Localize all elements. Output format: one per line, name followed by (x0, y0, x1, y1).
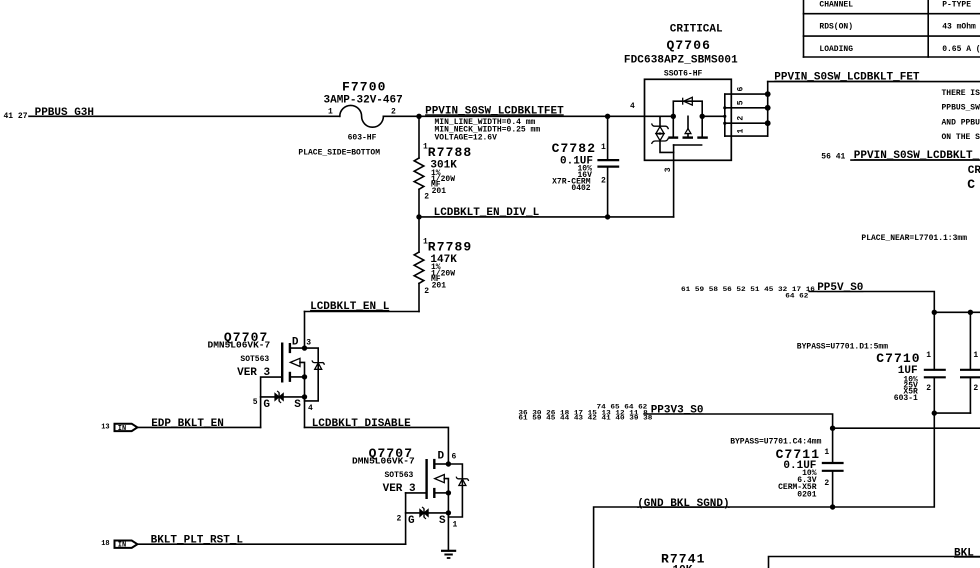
svg-text:603-HF: 603-HF (348, 133, 377, 142)
svg-text:1: 1 (423, 238, 428, 247)
svg-text:P-TYPE: P-TYPE (942, 0, 971, 9)
svg-text:PPBUS_SW: PPBUS_SW (942, 104, 980, 113)
svg-text:1: 1 (824, 448, 829, 457)
svg-text:41 27: 41 27 (4, 112, 28, 121)
svg-text:LCDBKLT_DISABLE: LCDBKLT_DISABLE (312, 418, 411, 430)
svg-text:1: 1 (973, 351, 978, 360)
svg-text:PP5V_S0: PP5V_S0 (817, 282, 863, 294)
svg-text:CRITICAL: CRITICAL (670, 24, 723, 36)
svg-text:Q7706: Q7706 (667, 38, 712, 53)
svg-text:2: 2 (737, 116, 746, 121)
svg-text:2: 2 (973, 384, 978, 393)
svg-text:SSOT6-HF: SSOT6-HF (664, 70, 703, 79)
svg-text:PPVIN_S0SW_LCDBKLT_FET: PPVIN_S0SW_LCDBKLT_FET (774, 72, 920, 84)
svg-text:2: 2 (824, 479, 829, 488)
svg-text:PP3V3_S0: PP3V3_S0 (651, 404, 704, 416)
svg-text:C7782: C7782 (552, 141, 597, 156)
svg-text:BYPASS=U7701.D1:5mm: BYPASS=U7701.D1:5mm (797, 343, 888, 352)
svg-text:56 41: 56 41 (821, 153, 845, 162)
svg-text:2: 2 (601, 176, 606, 185)
svg-text:43 mOhm: 43 mOhm (942, 23, 976, 32)
svg-text:G: G (408, 515, 415, 527)
svg-text:PPVIN_S0SW_LCDBKLTFET: PPVIN_S0SW_LCDBKLTFET (425, 105, 564, 117)
svg-text:IN: IN (118, 425, 126, 433)
svg-text:4: 4 (630, 102, 635, 111)
svg-text:VER 3: VER 3 (237, 367, 270, 379)
svg-text:1: 1 (423, 143, 428, 152)
svg-text:2: 2 (391, 108, 396, 117)
svg-text:1: 1 (601, 143, 606, 152)
svg-text:PPVIN_S0SW_LCDBKLT_: PPVIN_S0SW_LCDBKLT_ (854, 150, 980, 162)
svg-text:VOLTAGE=12.6V: VOLTAGE=12.6V (435, 133, 498, 142)
svg-text:AND PPBU: AND PPBU (942, 118, 980, 127)
svg-text:CR: CR (968, 165, 980, 177)
svg-text:IN: IN (118, 542, 126, 550)
svg-text:1: 1 (328, 108, 333, 117)
svg-text:S: S (294, 399, 301, 411)
svg-text:3: 3 (306, 339, 311, 348)
svg-text:PPBUS_G3H: PPBUS_G3H (35, 107, 94, 119)
svg-text:LOADING: LOADING (819, 45, 853, 54)
svg-text:PLACE_SIDE=BOTTOM: PLACE_SIDE=BOTTOM (298, 149, 380, 158)
svg-text:2: 2 (397, 514, 402, 523)
svg-text:2: 2 (926, 384, 931, 393)
svg-text:18: 18 (101, 540, 109, 548)
svg-text:D: D (438, 451, 445, 463)
svg-text:(GND_BKL_SGND): (GND_BKL_SGND) (637, 498, 729, 510)
svg-text:BKL_: BKL_ (954, 548, 980, 560)
svg-text:LCDBKLT_EN_L: LCDBKLT_EN_L (310, 301, 390, 313)
svg-text:5: 5 (253, 398, 258, 407)
svg-text:1: 1 (453, 520, 458, 529)
svg-text:3: 3 (664, 167, 673, 172)
svg-text:5: 5 (737, 100, 746, 105)
svg-text:S: S (439, 515, 446, 527)
svg-text:0.65 A (M: 0.65 A (M (942, 45, 980, 54)
svg-text:SOT563: SOT563 (240, 355, 269, 364)
svg-text:RDS(ON): RDS(ON) (819, 23, 853, 32)
svg-text:1: 1 (737, 129, 746, 134)
svg-text:FDC638APZ_SBMS001: FDC638APZ_SBMS001 (624, 55, 738, 67)
svg-text:F7700: F7700 (342, 80, 387, 95)
svg-text:2: 2 (424, 193, 429, 202)
svg-text:BYPASS=U7701.C4:4mm: BYPASS=U7701.C4:4mm (730, 437, 821, 446)
svg-text:3AMP-32V-467: 3AMP-32V-467 (324, 94, 403, 106)
svg-text:603-1: 603-1 (894, 394, 918, 403)
svg-text:6: 6 (452, 453, 457, 462)
svg-text:G: G (263, 399, 270, 411)
svg-text:0402: 0402 (571, 184, 590, 193)
svg-text:1: 1 (926, 351, 931, 360)
svg-text:201: 201 (432, 187, 447, 196)
svg-text:EDP_BKLT_EN: EDP_BKLT_EN (151, 418, 224, 430)
svg-text:DMN5L06VK-7: DMN5L06VK-7 (208, 340, 271, 351)
svg-text:C7710: C7710 (876, 351, 921, 366)
svg-text:0201: 0201 (797, 490, 816, 499)
svg-text:13: 13 (101, 423, 109, 431)
svg-text:10K: 10K (673, 565, 693, 568)
svg-text:LCDBKLT_EN_DIV_L: LCDBKLT_EN_DIV_L (434, 207, 540, 219)
svg-text:6: 6 (737, 87, 746, 92)
svg-text:PLACE_NEAR=L7701.1:3mm: PLACE_NEAR=L7701.1:3mm (861, 234, 967, 243)
svg-text:201: 201 (432, 281, 447, 290)
svg-text:SOT563: SOT563 (385, 471, 414, 480)
svg-text:4: 4 (308, 404, 313, 413)
svg-text:THERE IS: THERE IS (942, 89, 980, 98)
svg-text:R7789: R7789 (428, 239, 473, 254)
svg-text:R7788: R7788 (428, 145, 473, 160)
svg-text:BKLT_PLT_RST_L: BKLT_PLT_RST_L (151, 535, 244, 547)
svg-text:DMN5L06VK-7: DMN5L06VK-7 (352, 456, 415, 467)
svg-text:D: D (292, 337, 299, 349)
svg-text:61 59 45 44 43 42 41 40 39 38: 61 59 45 44 43 42 41 40 39 38 (518, 415, 652, 422)
svg-text:ON THE S: ON THE S (942, 133, 980, 142)
svg-text:VER 3: VER 3 (383, 483, 416, 495)
svg-text:2: 2 (424, 287, 429, 296)
svg-text:C: C (967, 177, 976, 192)
svg-text:CHANNEL: CHANNEL (819, 0, 853, 9)
svg-text:64 62: 64 62 (785, 293, 808, 300)
